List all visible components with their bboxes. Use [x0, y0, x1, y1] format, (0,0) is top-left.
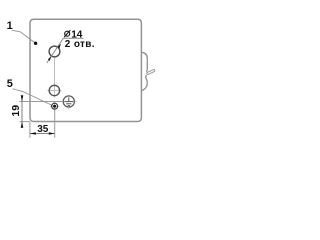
- svg-text:2 отв.: 2 отв.: [65, 39, 95, 50]
- leader 5: [13, 89, 53, 106]
- centerline between holes: [54, 58, 56, 86]
- stud circle: [52, 103, 58, 109]
- svg-text:19: 19: [10, 105, 22, 117]
- stud center dot: [53, 105, 56, 108]
- earth symbol: [64, 97, 73, 105]
- dim line 35: [30, 133, 55, 135]
- side bump finger tab: [148, 71, 154, 74]
- diameter arrow upper-right: [58, 44, 61, 49]
- arrow 19 bottom: [21, 122, 24, 128]
- stud crosshair: [50, 105, 59, 107]
- hole H1 circle: [49, 46, 60, 57]
- dim line 19: [21, 95, 23, 128]
- extension right 35: [54, 109, 56, 137]
- extension line to earth height: [20, 101, 64, 103]
- extension left 35: [29, 122, 31, 138]
- side bump lower wiggle: [141, 75, 147, 90]
- svg-text:35: 35: [37, 124, 49, 135]
- leader 1: [12, 30, 36, 43]
- hole H2 crosshair: [48, 90, 62, 92]
- arrow 35 right: [49, 132, 55, 135]
- earth centermark ticks: [75, 101, 77, 103]
- bottom edge extension: [20, 121, 31, 123]
- earth terminal circle: [63, 96, 74, 107]
- arrow 19 top: [21, 95, 24, 101]
- arrow 35 left: [30, 132, 36, 135]
- enclosure body outline: [30, 19, 141, 121]
- leader 1 dot: [34, 42, 37, 45]
- hole H2 circle: [49, 85, 59, 95]
- diameter arrow lower-left: [48, 56, 51, 61]
- side cable-entry bump: [141, 52, 147, 71]
- diameter symbol: [64, 30, 70, 37]
- diameter leader line: [47, 38, 84, 63]
- svg-text:5: 5: [7, 78, 13, 90]
